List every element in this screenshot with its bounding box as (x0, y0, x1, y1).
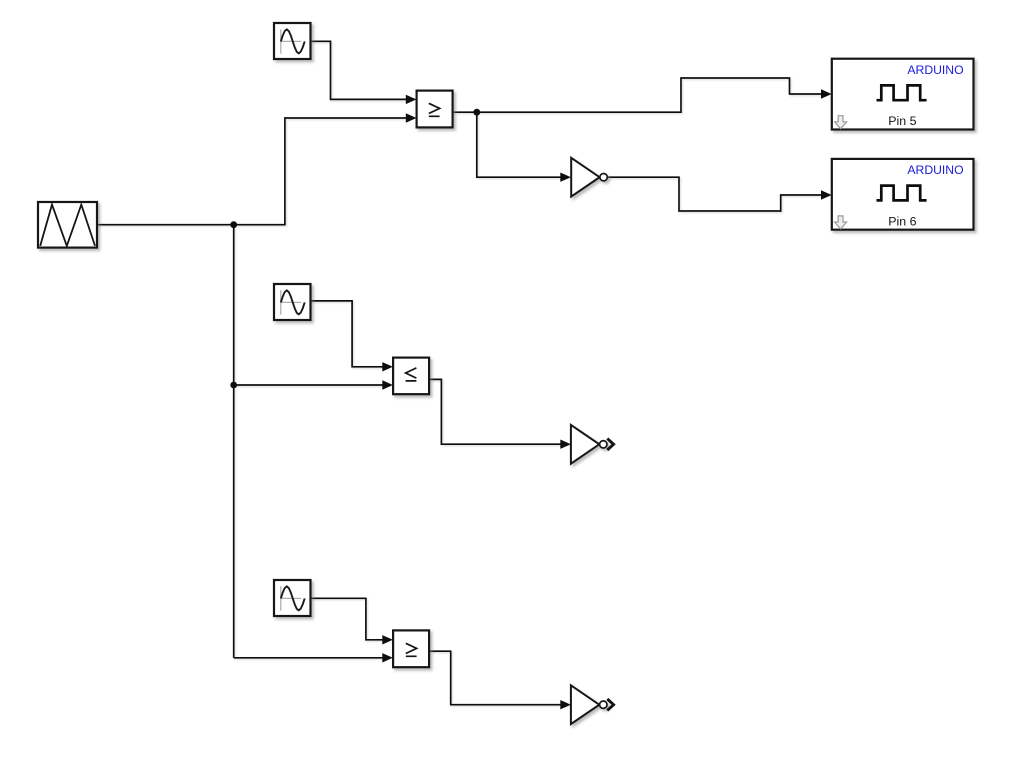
relational operator R3 (greater-or-equal) (393, 630, 429, 667)
wire W12 junction C down to NOT gate N1 input (477, 112, 561, 177)
NOT gate N1 (571, 158, 607, 197)
wire W3 trunk junction A down to junction B (233, 225, 235, 385)
Arduino PWM block Pin 5 (832, 59, 974, 130)
Arduino PWM block Pin 6 (832, 159, 974, 230)
open output port of N3 (607, 699, 613, 710)
wire W14 relational R2 output to NOT gate N2 input (429, 379, 560, 444)
arrowhead into N3 (560, 700, 571, 709)
open output port of N2 (607, 439, 613, 450)
svg-text:Pin 5: Pin 5 (888, 114, 916, 128)
wire W11 junction C to Arduino Pin5 input (477, 78, 822, 112)
wire W6 bottom corner to relational R3 input 2 (234, 657, 383, 659)
arrowhead into R2 input 2 (382, 380, 393, 389)
wire W10 relational R1 output to junction C (453, 111, 477, 113)
wire W4 junction B to relational R2 input 2 (234, 384, 383, 386)
wire W7 sine S1 to relational R1 input 1 (311, 41, 407, 99)
sine wave block S3 (274, 580, 311, 616)
wire W9 sine S3 to relational R3 input 1 (311, 598, 383, 640)
svg-text:ARDUINO: ARDUINO (907, 163, 963, 177)
wire W13 NOT gate N1 output to Arduino Pin6 input (607, 177, 821, 211)
junction A (230, 221, 237, 228)
junction C (473, 109, 480, 116)
arrowhead into R3 input 2 (382, 653, 393, 662)
wire W2 junction A up to relational R1 input 2 (234, 118, 407, 225)
wire W15 relational R3 output to NOT gate N3 input (429, 651, 560, 705)
junction B (230, 382, 237, 389)
wire W1 source to junction A (97, 224, 234, 226)
arrowhead into R2 input 1 (382, 362, 393, 371)
wire W5 trunk junction B down to bottom corner (233, 385, 235, 658)
relational operator R2 (less-or-equal) (393, 358, 429, 395)
arrowhead into R3 input 1 (382, 635, 393, 644)
triangle wave source block (38, 202, 97, 248)
sine wave block S2 (274, 284, 311, 320)
arrowhead into N1 (560, 173, 571, 182)
arrowhead into R1 input 2 (406, 113, 417, 122)
arrowhead into Pin6 (821, 190, 832, 199)
svg-text:Pin 6: Pin 6 (888, 214, 916, 228)
NOT gate N2 (571, 425, 607, 464)
svg-text:ARDUINO: ARDUINO (907, 63, 963, 77)
wire W8 sine S2 to relational R2 input 1 (311, 301, 383, 367)
sine wave block S1 (274, 23, 311, 59)
arrowhead into N2 (560, 440, 571, 449)
arrowhead into R1 input 1 (406, 95, 417, 104)
NOT gate N3 (571, 685, 607, 724)
arrowhead into Pin5 (821, 89, 832, 98)
relational operator R1 (greater-or-equal) (417, 91, 453, 128)
